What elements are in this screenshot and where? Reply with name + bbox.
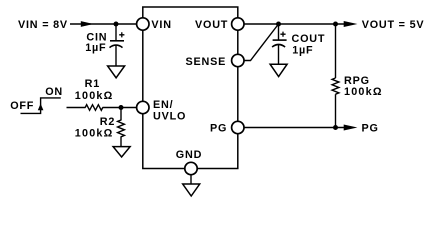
wire R2 to ground xyxy=(120,136,122,146)
wire GND stem xyxy=(190,175,192,184)
wire CIN stem xyxy=(115,24,117,41)
svg-text:OFF: OFF xyxy=(10,100,34,112)
svg-text:VOUT = 5V: VOUT = 5V xyxy=(362,19,425,31)
ground (GND pin) xyxy=(183,184,200,196)
wire COUT to ground xyxy=(278,44,280,64)
svg-text:ON: ON xyxy=(45,86,63,98)
arrow rising edge xyxy=(38,104,44,111)
svg-text:100kΩ: 100kΩ xyxy=(75,90,114,102)
wire VIN input rail xyxy=(70,23,136,25)
svg-text:1µF: 1µF xyxy=(292,44,313,56)
pin SENSE xyxy=(232,54,244,66)
svg-text:SENSE: SENSE xyxy=(186,56,227,68)
pin GND xyxy=(185,162,197,174)
arrow PG output xyxy=(344,125,358,131)
node PG junction xyxy=(333,125,338,130)
svg-text:R1: R1 xyxy=(85,78,100,90)
wire CIN to ground xyxy=(115,45,117,66)
node COUT junction xyxy=(276,22,281,27)
pin VIN xyxy=(137,18,149,30)
svg-text:100kΩ: 100kΩ xyxy=(344,86,383,98)
svg-text:UVLO: UVLO xyxy=(153,111,186,123)
pin EN/UVLO xyxy=(137,101,149,113)
svg-text:PG: PG xyxy=(210,123,227,135)
svg-text:100kΩ: 100kΩ xyxy=(75,128,114,140)
resistor RPG xyxy=(332,78,339,94)
switch waveform OFF/ON xyxy=(21,98,61,114)
wire R1 to EN pin xyxy=(103,107,137,109)
wire VOUT output rail xyxy=(244,23,345,25)
node RPG top junction xyxy=(333,22,338,27)
svg-text:R2: R2 xyxy=(100,116,115,128)
IC body U1 xyxy=(143,7,238,169)
capacitor CIN xyxy=(110,32,125,47)
capacitor COUT xyxy=(272,32,287,47)
svg-text:VIN = 8V: VIN = 8V xyxy=(18,19,68,31)
svg-text:COUT: COUT xyxy=(292,33,326,45)
ground (R2) xyxy=(113,147,130,157)
pin PG xyxy=(232,121,244,133)
svg-text:EN/: EN/ xyxy=(153,99,173,111)
wire PG rail xyxy=(244,127,345,129)
pin VOUT xyxy=(232,18,244,30)
svg-text:GND: GND xyxy=(176,149,202,161)
svg-text:VOUT: VOUT xyxy=(195,19,228,31)
wire R2 upper xyxy=(120,108,122,121)
resistor R2 xyxy=(118,120,125,137)
svg-text:1µF: 1µF xyxy=(85,42,106,54)
wire SENSE to COUT node xyxy=(244,24,279,61)
svg-text:VIN: VIN xyxy=(151,19,171,31)
arrow VOUT output xyxy=(344,21,358,27)
svg-text:PG: PG xyxy=(362,123,379,135)
node R1/R2 junction xyxy=(119,105,124,110)
wire RPG lower xyxy=(335,94,337,127)
resistor R1 xyxy=(85,105,103,111)
ground (CIN) xyxy=(108,66,125,78)
wire COUT stem xyxy=(278,24,280,40)
node CIN junction xyxy=(114,22,119,27)
wire RPG upper xyxy=(335,24,337,78)
wire EN input xyxy=(67,107,86,109)
arrow input flow xyxy=(81,21,94,27)
ground (COUT) xyxy=(270,64,287,76)
